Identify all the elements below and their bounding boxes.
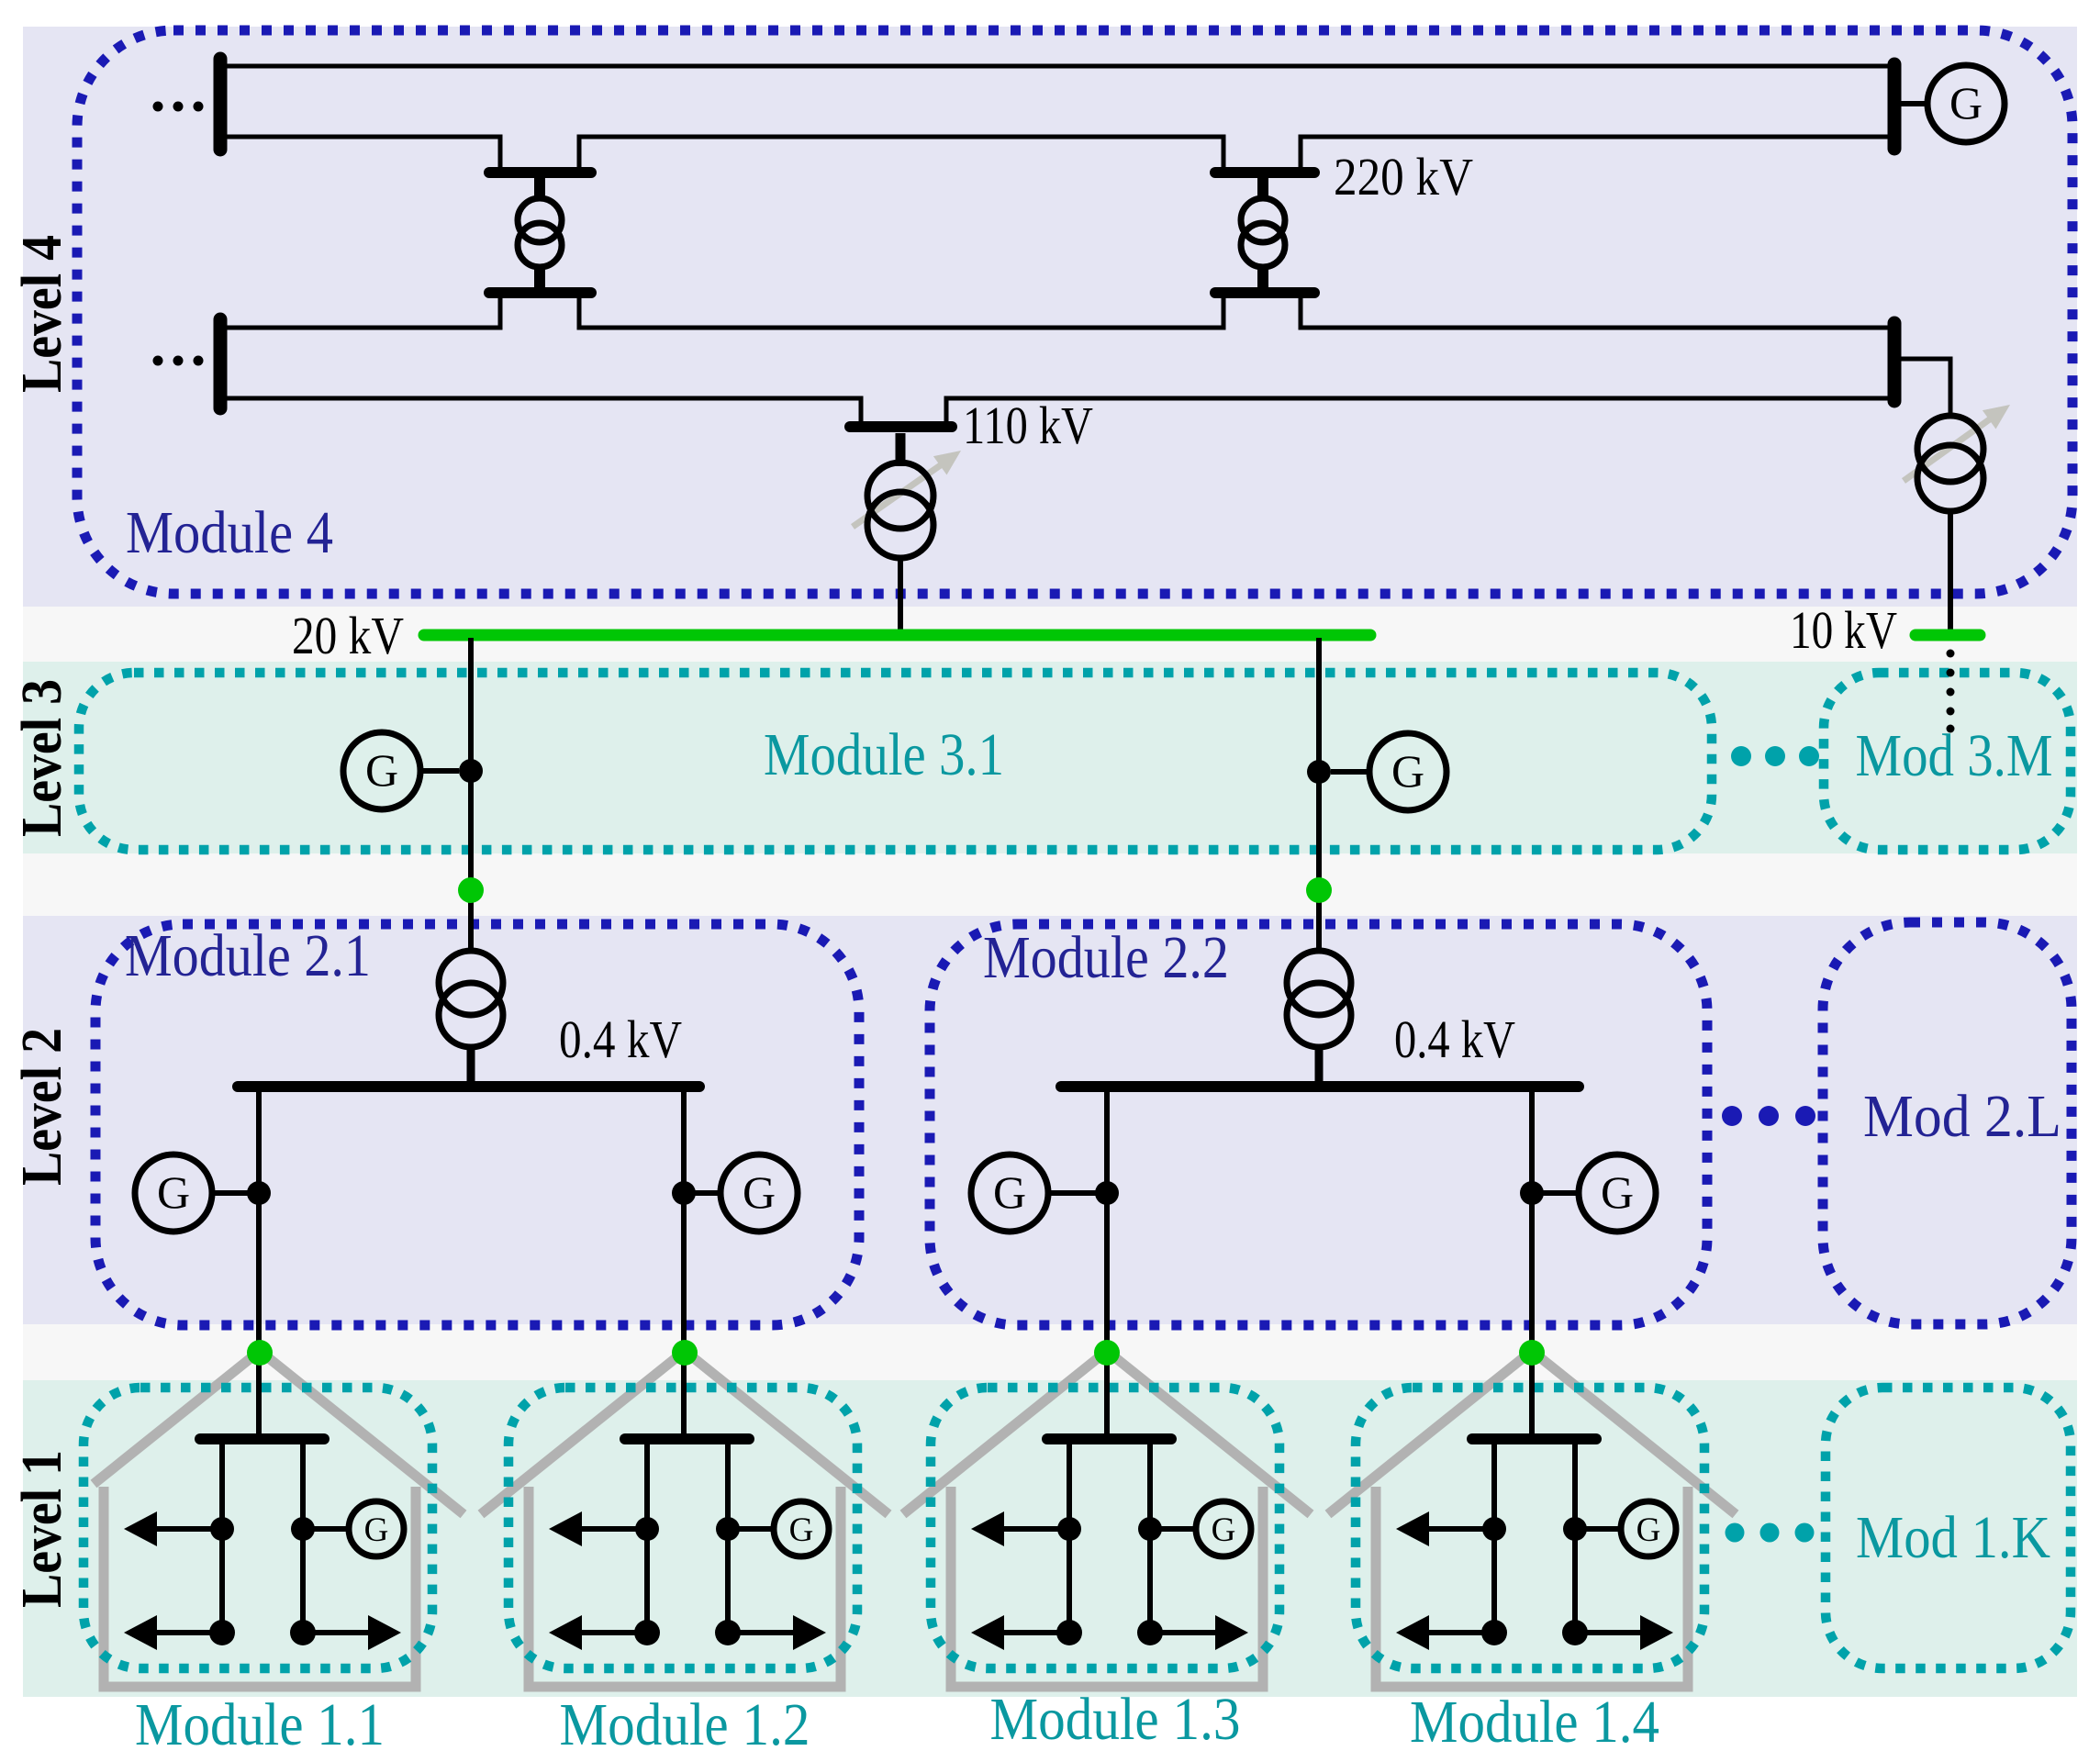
load arrow lower-left module 1.1 xyxy=(124,1615,222,1650)
house bus module 1.3 xyxy=(1047,1433,1171,1444)
generator G2.1b (right) xyxy=(684,1154,798,1232)
junction node on F1 xyxy=(459,759,483,783)
20 kV green bus xyxy=(424,630,1370,641)
10 kV green bus xyxy=(1916,630,1980,641)
load column right module 1.4 xyxy=(1572,1443,1578,1633)
0.4 kV bus module 2.1 xyxy=(238,1081,699,1092)
load column left module 1.3 xyxy=(1067,1443,1072,1633)
svg-text:Module 1.1: Module 1.1 xyxy=(135,1691,385,1758)
110 kV substation bus xyxy=(850,421,952,432)
Level 2 band xyxy=(23,916,2077,1324)
svg-text:Level 4: Level 4 xyxy=(11,235,73,393)
svg-text:0.4 kV: 0.4 kV xyxy=(1394,1009,1515,1069)
green node above module 1.4 xyxy=(1519,1340,1545,1366)
busbar B4 (lower-right terminal) xyxy=(1888,323,1902,401)
Level 3 band xyxy=(23,662,2077,853)
junction node on F2 xyxy=(1307,760,1331,784)
Mod 3.M dotted box xyxy=(1824,673,2071,850)
generator G3b (Module 3.1 right) xyxy=(1331,733,1447,810)
wire line C segment 3 xyxy=(1301,298,1888,328)
load column right module 1.1 xyxy=(300,1443,306,1633)
svg-text:G: G xyxy=(1636,1511,1661,1549)
ellipsis dots level 2 xyxy=(1722,1106,1815,1126)
Level 4 band xyxy=(23,27,2077,607)
junction upper-left module 1.2 xyxy=(635,1517,659,1541)
wire from B4 to T4 xyxy=(1894,359,1950,415)
feeder wire F1 (20 kV feeder left) xyxy=(468,638,474,951)
Level 1 band xyxy=(23,1380,2077,1697)
house outline module 1.1 xyxy=(94,1351,464,1687)
feeder drop right module 2.2 xyxy=(1529,1090,1535,1439)
house outline module 1.3 xyxy=(903,1351,1311,1687)
tap-changer arrow on T3 xyxy=(853,451,961,527)
junction lower-right module 1.4 xyxy=(1562,1620,1588,1645)
house bus module 1.4 xyxy=(1472,1433,1596,1444)
load column right module 1.2 xyxy=(725,1443,731,1633)
junction upper-left module 1.3 xyxy=(1057,1517,1081,1541)
house outline module 1.2 xyxy=(481,1351,888,1687)
svg-text:Level 3: Level 3 xyxy=(11,679,73,837)
Module 3.1 dotted box xyxy=(79,673,1712,850)
green node above module 1.1 xyxy=(247,1340,273,1366)
feeder drop right module 2.1 xyxy=(681,1090,687,1439)
generator G2.2a (left) xyxy=(971,1154,1107,1232)
220 kV bus upper left xyxy=(489,167,591,178)
load arrow upper-left module 1.3 xyxy=(971,1511,1069,1546)
busbar B3 (top-right, generator bus) xyxy=(1888,64,1902,149)
transformer T2.1 (20/0.4 kV) xyxy=(439,951,503,1083)
junction node left module 2.2 xyxy=(1095,1181,1119,1205)
load arrow upper-left module 1.2 xyxy=(549,1511,647,1546)
svg-text:G: G xyxy=(993,1166,1026,1218)
house bus module 1.2 xyxy=(625,1433,749,1444)
green node above module 1.2 xyxy=(672,1340,698,1366)
junction node right module 2.1 xyxy=(672,1181,696,1205)
green node on F1 xyxy=(458,877,484,903)
svg-text:Module 1.2: Module 1.2 xyxy=(560,1691,810,1758)
svg-text:20 kV: 20 kV xyxy=(292,606,404,665)
generator G1.3 (rooftop PV) xyxy=(1150,1501,1251,1556)
feeder drop left module 2.1 xyxy=(256,1090,262,1439)
svg-text:220 kV: 220 kV xyxy=(1334,147,1473,206)
continuation dots left of B2 xyxy=(153,356,204,366)
load arrow lower-right module 1.4 xyxy=(1575,1615,1673,1650)
junction lower-right module 1.3 xyxy=(1137,1620,1163,1645)
junction lower-left module 1.1 xyxy=(209,1620,235,1645)
load arrow upper-left module 1.4 xyxy=(1396,1511,1494,1546)
Module 2.2 dotted box xyxy=(930,924,1707,1325)
junction upper-right module 1.1 xyxy=(291,1517,315,1541)
generator G1.1 (rooftop PV) xyxy=(303,1501,404,1556)
junction upper-right module 1.4 xyxy=(1563,1517,1587,1541)
transformer T4 (right 110/10 with tap arrow) xyxy=(1917,416,1983,635)
generator G3a (Module 3.1 left) xyxy=(343,732,459,809)
svg-text:Mod 1.K: Mod 1.K xyxy=(1856,1504,2050,1571)
generator G1.2 (rooftop PV) xyxy=(728,1501,829,1556)
feeder wire F2 (20 kV feeder right) xyxy=(1316,638,1322,951)
tap-changer arrow on T4 xyxy=(1904,405,2010,481)
load arrow lower-right module 1.1 xyxy=(303,1615,401,1650)
Mod 1.K dotted box xyxy=(1826,1388,2071,1668)
0.4 kV bus module 2.2 xyxy=(1061,1081,1579,1092)
wire line A (top transmission line) xyxy=(227,64,1888,69)
svg-text:Mod 2.L: Mod 2.L xyxy=(1863,1083,2061,1150)
svg-text:Module 1.3: Module 1.3 xyxy=(990,1686,1241,1753)
junction upper-left module 1.1 xyxy=(210,1517,234,1541)
load arrow upper-left module 1.1 xyxy=(124,1511,222,1546)
svg-text:10 kV: 10 kV xyxy=(1790,600,1897,660)
wire line D segment 2 xyxy=(946,398,1888,423)
svg-text:Level 1: Level 1 xyxy=(11,1450,73,1608)
svg-text:110 kV: 110 kV xyxy=(963,396,1093,455)
junction upper-right module 1.2 xyxy=(716,1517,740,1541)
Module 1.4 dotted box xyxy=(1356,1388,1704,1668)
load arrow lower-left module 1.4 xyxy=(1396,1615,1494,1650)
junction lower-left module 1.2 xyxy=(634,1620,660,1645)
svg-text:G: G xyxy=(1601,1166,1634,1218)
Module 1.1 dotted box xyxy=(84,1388,432,1668)
busbar B1 (top-left 220 kV terminal) xyxy=(214,59,228,150)
svg-text:Module 1.4: Module 1.4 xyxy=(1410,1689,1659,1756)
svg-text:Module 4: Module 4 xyxy=(126,499,333,566)
220 kV bus upper right xyxy=(1215,167,1314,178)
green node above module 1.3 xyxy=(1094,1340,1120,1366)
transformer T3 (110/20 with tap arrow) xyxy=(867,433,933,635)
wire line C segment 1 xyxy=(227,298,500,328)
load arrow lower-right module 1.3 xyxy=(1150,1615,1248,1650)
feeder drop left module 2.2 xyxy=(1104,1090,1110,1439)
svg-text:Module 2.1: Module 2.1 xyxy=(125,922,371,989)
110 kV bus lower right xyxy=(1215,287,1314,298)
svg-text:G: G xyxy=(365,744,398,796)
svg-text:G: G xyxy=(157,1166,190,1218)
load arrow lower-left module 1.2 xyxy=(549,1615,647,1650)
continuation dots left of B1 xyxy=(153,102,204,112)
transformer T2 (right 220/110) xyxy=(1241,177,1285,288)
generator G1.4 (rooftop PV) xyxy=(1575,1501,1676,1556)
load column left module 1.2 xyxy=(644,1443,650,1633)
generator G2.2b (right) xyxy=(1532,1154,1656,1232)
wire line B segment 3 xyxy=(1301,137,1888,170)
load column left module 1.1 xyxy=(219,1443,225,1633)
busbar B2 (lower-left terminal) xyxy=(214,319,228,408)
junction lower-right module 1.1 xyxy=(290,1620,316,1645)
generator G2.1a (left) xyxy=(135,1154,259,1232)
svg-text:G: G xyxy=(789,1511,814,1549)
junction node right module 2.2 xyxy=(1520,1181,1544,1205)
ellipsis dots level 3 xyxy=(1731,746,1819,766)
svg-text:G: G xyxy=(1949,77,1983,128)
load column left module 1.4 xyxy=(1491,1443,1497,1633)
svg-text:Mod 3.M: Mod 3.M xyxy=(1856,722,2053,789)
Mod 2.L dotted box xyxy=(1823,922,2072,1324)
svg-text:G: G xyxy=(743,1166,776,1218)
wire line D segment 1 xyxy=(227,398,861,423)
svg-text:G: G xyxy=(1212,1511,1236,1549)
svg-text:0.4 kV: 0.4 kV xyxy=(559,1009,682,1069)
junction upper-left module 1.4 xyxy=(1482,1517,1506,1541)
junction lower-right module 1.2 xyxy=(715,1620,741,1645)
generator G4 (transmission) xyxy=(1901,65,2005,142)
wire line B segment 2 xyxy=(579,137,1223,170)
green node on F2 xyxy=(1306,877,1332,903)
Module 1.3 dotted box xyxy=(931,1388,1279,1668)
transformer T2.2 (20/0.4 kV) xyxy=(1287,951,1351,1083)
junction upper-right module 1.3 xyxy=(1138,1517,1162,1541)
load arrow lower-right module 1.2 xyxy=(728,1615,826,1650)
svg-text:Module 3.1: Module 3.1 xyxy=(764,721,1004,788)
ellipsis dots level 1 xyxy=(1726,1523,1815,1543)
junction lower-left module 1.3 xyxy=(1056,1620,1082,1645)
house bus module 1.1 xyxy=(200,1433,324,1444)
load arrow lower-left module 1.3 xyxy=(971,1615,1069,1650)
110 kV bus lower left xyxy=(489,287,591,298)
svg-text:G: G xyxy=(1391,745,1424,797)
Module 4 dotted box xyxy=(77,30,2072,594)
junction node left module 2.1 xyxy=(247,1181,271,1205)
dotted continuation below 10 kV bus xyxy=(1947,650,1955,733)
wire line C segment 2 xyxy=(579,298,1223,328)
junction lower-left module 1.4 xyxy=(1481,1620,1507,1645)
load column right module 1.3 xyxy=(1147,1443,1153,1633)
transformer T1 (left 220/110) xyxy=(518,177,562,288)
wire line B segment 1 xyxy=(227,137,500,170)
Module 2.1 dotted box xyxy=(95,924,859,1325)
svg-text:Level 2: Level 2 xyxy=(11,1028,73,1186)
svg-text:G: G xyxy=(364,1511,389,1549)
svg-text:Module 2.2: Module 2.2 xyxy=(983,924,1229,991)
Module 1.2 dotted box xyxy=(508,1388,857,1668)
house outline module 1.4 xyxy=(1328,1351,1736,1687)
